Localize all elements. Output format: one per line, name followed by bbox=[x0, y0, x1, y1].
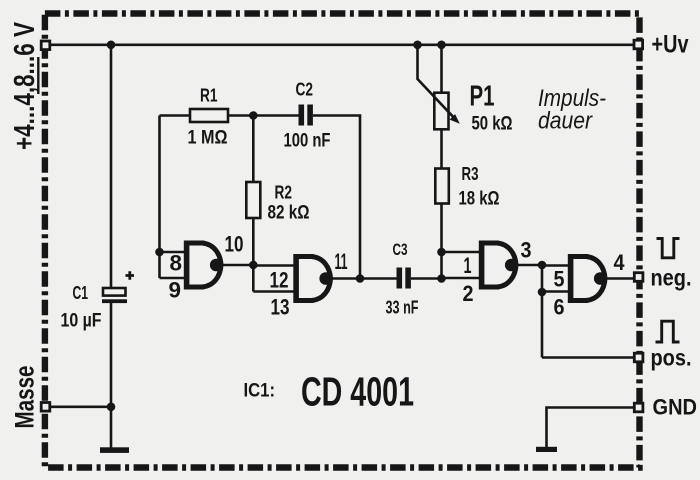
nor gate IC1a U1 pins 8 9 10 bbox=[184, 241, 223, 290]
wire +Uv top rail bbox=[45, 43, 639, 46]
svg-text:3: 3 bbox=[521, 238, 532, 263]
wire P1 to R3 bbox=[440, 129, 443, 169]
capacitor C1 electrolytic plates bbox=[102, 288, 127, 303]
node P1 wiper junction on rail bbox=[413, 41, 422, 50]
waveform icon negative pulse bbox=[657, 239, 680, 258]
svg-text:1 MΩ: 1 MΩ bbox=[188, 128, 228, 149]
node G junction pin3/pin5 bbox=[538, 261, 547, 270]
node B junction R1/C2/R2 bbox=[249, 111, 258, 120]
waveform icon positive pulse bbox=[656, 321, 680, 342]
svg-text:neg.: neg. bbox=[651, 265, 692, 291]
wire R2 down to node C bbox=[252, 218, 255, 265]
wire pin 1 stub bbox=[442, 251, 482, 254]
wire tie pins 5 6 down to pos bbox=[541, 265, 544, 358]
capacitor C2 bbox=[299, 105, 313, 126]
resistor R3 bbox=[435, 169, 449, 204]
wire R1 left bbox=[160, 114, 192, 117]
node H junction pin6 bbox=[538, 288, 547, 297]
svg-text:1: 1 bbox=[464, 253, 472, 278]
resistor R1 bbox=[190, 109, 228, 122]
svg-text:33 nF: 33 nF bbox=[386, 298, 419, 318]
wire pin 12 stub bbox=[253, 264, 296, 267]
terminal +Uv (right border) bbox=[634, 40, 643, 49]
svg-text:IC1:: IC1: bbox=[244, 380, 276, 402]
wire pin 2 stub bbox=[442, 277, 482, 280]
svg-text:2: 2 bbox=[463, 281, 474, 306]
svg-text:dauer: dauer bbox=[538, 108, 593, 135]
wire node B to C2 bbox=[253, 114, 299, 117]
terminal neg output bbox=[634, 273, 643, 282]
label Masse bbox=[10, 366, 40, 429]
wire GND terminal to ground symbol bbox=[547, 408, 635, 448]
node F junction pin1 bbox=[437, 248, 446, 257]
nor gate IC1c U3 pins 1 2 3 bbox=[479, 241, 518, 290]
svg-text:8: 8 bbox=[170, 251, 183, 276]
nor gate IC1d U4 pins 5 6 4 bbox=[568, 254, 607, 303]
svg-text:50 kΩ: 50 kΩ bbox=[472, 114, 513, 135]
C1 plus polarity mark bbox=[126, 271, 135, 280]
svg-text:C3: C3 bbox=[393, 240, 408, 259]
ground bar below C1 bbox=[100, 407, 129, 453]
svg-text:11: 11 bbox=[335, 249, 348, 274]
svg-text:+4...4,8...6 V: +4...4,8...6 V bbox=[9, 21, 41, 150]
svg-text:C1: C1 bbox=[73, 283, 89, 303]
svg-text:Masse: Masse bbox=[10, 366, 40, 429]
wire Masse terminal to junction bbox=[50, 405, 111, 408]
svg-text:pos.: pos. bbox=[651, 345, 692, 371]
svg-text:5: 5 bbox=[554, 267, 565, 292]
svg-text:CD 4001: CD 4001 bbox=[301, 369, 414, 415]
svg-text:13: 13 bbox=[271, 295, 290, 320]
svg-text:6: 6 bbox=[554, 295, 565, 320]
svg-text:10 µF: 10 µF bbox=[61, 311, 102, 332]
wire gate1 input tie vertical bbox=[158, 116, 161, 279]
ground symbol bbox=[536, 447, 557, 452]
terminal pos output bbox=[634, 353, 643, 362]
wire C1 to Masse node bbox=[110, 303, 113, 408]
svg-text:18 kΩ: 18 kΩ bbox=[459, 189, 500, 210]
capacitor C3 bbox=[397, 268, 411, 289]
wire node D to C3 bbox=[360, 277, 397, 280]
svg-text:C2: C2 bbox=[296, 80, 314, 100]
resistor R2 bbox=[246, 182, 260, 218]
svg-text:82 kΩ: 82 kΩ bbox=[268, 203, 310, 224]
node P1 top junction on rail bbox=[437, 41, 446, 50]
wire rail to P1 bbox=[440, 45, 443, 93]
wire gate1 output to node C bbox=[218, 264, 253, 267]
wire rail down to C1 bbox=[110, 45, 113, 289]
node D junction gate2 out / C2 / C3 bbox=[356, 274, 365, 283]
node A junction on rail above C1 bbox=[107, 41, 116, 50]
node pin8 junction bbox=[155, 248, 164, 257]
wire C3 to node E bbox=[411, 277, 442, 280]
svg-text:4: 4 bbox=[614, 250, 625, 275]
terminal Masse (left border) bbox=[41, 403, 50, 412]
label +4...4,8...6 V bbox=[9, 21, 41, 150]
wire gate3 output to node G bbox=[513, 264, 542, 267]
wire node B down to R2 bbox=[252, 116, 255, 183]
underline under 4,8 bbox=[37, 57, 39, 94]
wire R1 to node B bbox=[228, 114, 254, 117]
wire pin 5 stub bbox=[542, 264, 570, 267]
svg-text:+Uv: +Uv bbox=[652, 31, 689, 59]
terminal +Uv (left border) bbox=[41, 41, 50, 50]
wire to pos terminal bbox=[542, 356, 634, 359]
wire tie pins 12 13 bbox=[252, 265, 255, 292]
potentiometer P1 body bbox=[434, 93, 448, 130]
wire C2 right then down to gate2 output node bbox=[313, 116, 360, 279]
svg-text:9: 9 bbox=[169, 278, 182, 303]
node C junction gate1 out / R2 / gate2 in bbox=[249, 261, 258, 270]
svg-text:R1: R1 bbox=[200, 86, 218, 106]
wire gate4 output to neg terminal bbox=[602, 277, 634, 280]
wire pin 6 stub bbox=[542, 290, 570, 293]
svg-text:R2: R2 bbox=[275, 183, 293, 203]
svg-text:100 nF: 100 nF bbox=[284, 131, 331, 152]
svg-text:GND: GND bbox=[653, 395, 698, 420]
nor gate IC1b U2 pins 12 13 11 bbox=[294, 254, 333, 303]
svg-text:12: 12 bbox=[270, 268, 289, 293]
node E junction C3/pin2 bbox=[437, 274, 446, 283]
svg-text:R3: R3 bbox=[462, 164, 479, 184]
svg-text:P1: P1 bbox=[470, 81, 495, 113]
node Masse junction bbox=[107, 403, 116, 412]
wire pin 13 stub bbox=[253, 290, 296, 293]
wire pin 8 stub bbox=[160, 251, 187, 254]
wire gate2 output to node D bbox=[327, 277, 360, 280]
wire pin 9 stub bbox=[160, 277, 187, 280]
label Impulsdauer bbox=[538, 85, 606, 135]
wire P1 wiper with arrow bbox=[418, 45, 460, 124]
svg-text:10: 10 bbox=[225, 232, 244, 257]
wire tie node F to node E bbox=[440, 252, 443, 279]
wire R3 down to node F bbox=[440, 204, 443, 253]
terminal GND bbox=[634, 403, 643, 412]
